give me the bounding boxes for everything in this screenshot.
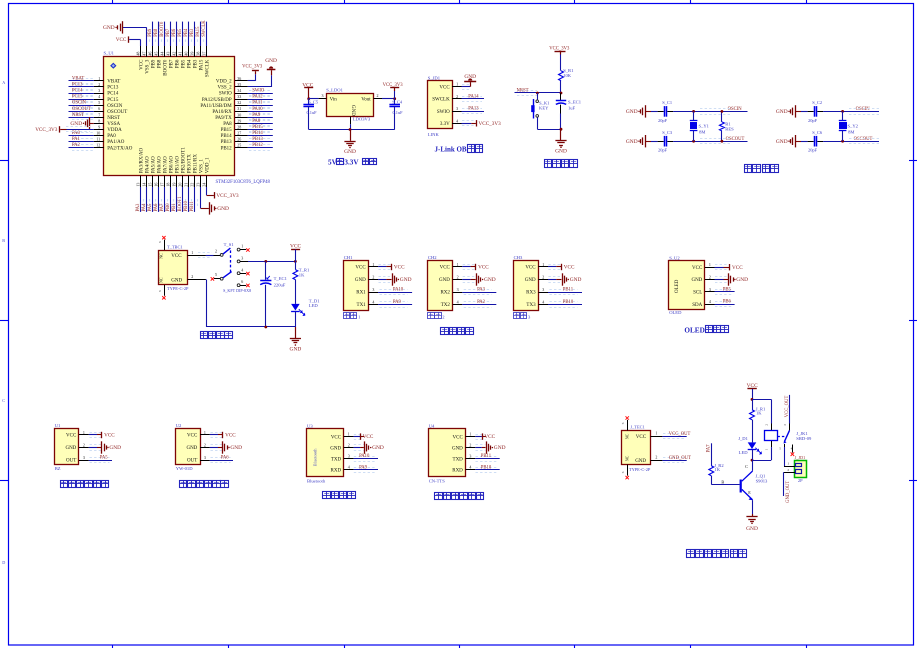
svg-text:4: 4: [98, 94, 100, 99]
wire net PA14: [462, 98, 485, 100]
svg-text:1: 1: [469, 432, 471, 437]
wire VCC to coil: [752, 399, 771, 401]
svg-text:PB11/RX: PB11/RX: [194, 154, 199, 174]
led T_D1 LED: [291, 304, 300, 311]
svg-text:2: 2: [765, 424, 769, 426]
wire net PA10 (U1 pin 31): [248, 111, 273, 113]
wire net PB5 (U1 pin 41): [182, 22, 184, 46]
junction (Vout / C4 / VCC_3V3): [393, 97, 396, 100]
svg-text:38: 38: [195, 52, 200, 56]
svg-text:10K: 10K: [563, 73, 572, 78]
svg-text:2: 2: [709, 275, 711, 280]
mcu U1 pin 46 PB9 (top): [152, 46, 154, 57]
caption module U4: [435, 493, 443, 500]
ground GND (relay): [746, 516, 757, 518]
svg-text:VCC: VCC: [355, 266, 366, 271]
wire S_C6 to net: [817, 141, 823, 143]
svg-text:25: 25: [237, 143, 241, 148]
svg-text:20pF: 20pF: [658, 148, 668, 153]
U3 pin 4 RXD: [344, 469, 354, 471]
svg-text:SCL: SCL: [693, 291, 702, 296]
mcu U1 pin 16 PA6/AO (bottom): [158, 176, 160, 188]
wire net PA11 (U1 pin 32): [248, 105, 273, 107]
svg-text:VSS_2: VSS_2: [218, 86, 233, 91]
T_TBC1 bottom NC pin: [164, 285, 166, 296]
resistor J_R2 1K: [709, 466, 714, 476]
svg-text:1: 1: [457, 262, 459, 267]
wire VSS_3 pin47 to GND: [123, 27, 147, 29]
svg-text:TX2: TX2: [441, 303, 451, 308]
mcu U1 pin 27 PB14 (right): [235, 135, 248, 137]
wire pin2 to GND: [462, 279, 470, 281]
CH2 pin 2 GND: [453, 279, 463, 281]
svg-text:32: 32: [237, 100, 241, 105]
svg-text:PA2: PA2: [72, 143, 81, 148]
svg-text:PA9: PA9: [359, 465, 368, 470]
wire net OSCIN (U1 pin 5): [69, 105, 94, 107]
ground GND (U1 VSS_1): [209, 202, 211, 214]
svg-text:3: 3: [456, 106, 458, 111]
svg-text:J_TEC1: J_TEC1: [630, 425, 644, 430]
wire net BOOT0 (U1 pin 44): [164, 22, 166, 46]
wire power ground rail: [206, 326, 295, 328]
svg-text:VCC: VCC: [66, 434, 77, 439]
svg-text:2: 2: [787, 468, 789, 472]
wire GND (U3): [354, 447, 361, 449]
svg-text:OLED: OLED: [684, 327, 704, 335]
wire VSSA pin8 to GND: [90, 123, 94, 125]
wire VDDA pin9 to VCC_3V3: [60, 129, 66, 131]
svg-text:GND: GND: [439, 278, 450, 283]
svg-text:PA9: PA9: [252, 113, 261, 118]
svg-text:3: 3: [542, 287, 544, 292]
junction (VCC / coil / R1): [751, 398, 754, 401]
svg-text:VCC: VCC: [331, 435, 342, 440]
ground GND (U1 VSSA): [89, 117, 91, 129]
svg-text:GND: GND: [626, 139, 638, 145]
svg-text:2: 2: [83, 443, 85, 448]
svg-text:GND: GND: [626, 109, 638, 115]
transistor J_Q1 S9013: [740, 480, 742, 493]
svg-text:7: 7: [98, 112, 100, 117]
connector CH2 body: [428, 261, 453, 311]
mcu U1 pin 30 PA9/TX (right): [235, 117, 248, 119]
wire switch pin3 to VCC node: [248, 261, 295, 263]
svg-text:VSS_3: VSS_3: [146, 59, 151, 74]
CH3 pin 4 TX3: [538, 304, 548, 306]
wire R2 to base: [711, 476, 713, 485]
svg-text:OSCIN: OSCIN: [856, 107, 871, 112]
svg-text:1: 1: [98, 76, 100, 81]
svg-text:GND_OUT: GND_OUT: [786, 481, 791, 503]
svg-text:1: 1: [191, 250, 193, 255]
J_TEC1 top NC pin: [627, 420, 629, 431]
capacitor S_C6 20pF: [814, 136, 816, 147]
wire net PA9 (U1 pin 30): [248, 117, 273, 119]
svg-text:PA5/AO: PA5/AO: [152, 156, 157, 173]
svg-text:NC: NC: [159, 253, 164, 259]
svg-text:PB9: PB9: [148, 28, 153, 37]
connector S_JD1 body: [428, 81, 453, 129]
svg-text:PB4: PB4: [188, 59, 193, 68]
svg-text:OSCOUT: OSCOUT: [107, 110, 127, 115]
svg-text:GND: GND: [400, 277, 412, 283]
wire GND to S_C2: [796, 111, 801, 113]
svg-text:2: 2: [204, 443, 206, 448]
svg-text:GND: GND: [494, 445, 506, 451]
power VCC (U1 pin48): [128, 36, 130, 42]
ground GND (U1 VSS_2): [271, 70, 273, 75]
mcu U1 pin 21 PB10/TX (bottom): [188, 176, 190, 188]
svg-text:PA5: PA5: [148, 203, 153, 212]
svg-text:VCC_3V3: VCC_3V3: [242, 64, 263, 69]
wire net PA10 (U3): [354, 458, 378, 460]
svg-text:PA11/USB/DM: PA11/USB/DM: [200, 104, 232, 109]
svg-text:VCC: VCC: [394, 265, 405, 271]
U3 pin 1 VCC: [344, 436, 354, 438]
border zone ticks right: [909, 160, 917, 162]
svg-text:S_C5: S_C5: [308, 99, 319, 104]
J_TEC1 pin 1 VCC: [651, 436, 663, 438]
wire net PA13: [462, 111, 485, 113]
S_JD1 pin 3 SWIO: [452, 111, 462, 113]
svg-text:GND: GND: [65, 446, 76, 451]
capacitor S_EC1 1uF: [560, 93, 562, 100]
mcu U1 pin 22 PB11/RX (bottom): [194, 176, 196, 188]
svg-text:6: 6: [621, 422, 625, 424]
connector T_TBC1 TYPE-C-2P body: [159, 251, 188, 285]
svg-text:29: 29: [237, 118, 241, 123]
svg-text:42: 42: [171, 52, 176, 56]
wire S_C3 to net: [667, 141, 673, 143]
wire JD1 pin2 to GND_OUT: [783, 472, 785, 496]
svg-text:PB4: PB4: [184, 28, 189, 37]
svg-text:LED: LED: [309, 303, 319, 308]
wire VSS_2 pin35 to GND: [248, 86, 271, 88]
caption serial port circuit: [441, 328, 449, 335]
caption module U1: [61, 481, 68, 488]
mcu U1 pin 33 PA12/USB/DP (right): [235, 99, 248, 101]
svg-text:VSS_1: VSS_1: [200, 159, 205, 174]
svg-text:PA12/USB/DP: PA12/USB/DP: [202, 98, 232, 103]
svg-text:PB13: PB13: [221, 140, 233, 145]
svg-text:VSSA: VSSA: [107, 122, 120, 127]
svg-text:14: 14: [141, 183, 146, 187]
svg-text:1: 1: [358, 315, 361, 320]
wire OLED VCC: [715, 267, 724, 269]
svg-text:PA1: PA1: [72, 137, 81, 142]
caption module U3: [323, 492, 331, 499]
mcu U1 pin 37 SWCLK (top): [206, 46, 208, 57]
svg-text:NC: NC: [625, 455, 630, 461]
wire net PA2 (CH2): [462, 304, 496, 306]
svg-text:PB7: PB7: [170, 59, 175, 68]
wire net PB6: [715, 304, 735, 306]
mcu U1 pin 25 PB12 (right): [235, 147, 248, 149]
svg-text:VCC: VCC: [636, 435, 647, 440]
U1 pin 1 VCC: [79, 434, 89, 436]
mcu U1 pin 2 PC13 (left): [94, 86, 104, 88]
svg-text:PB7: PB7: [166, 28, 171, 37]
svg-text:PA8: PA8: [252, 119, 261, 124]
caption module U2: [180, 481, 187, 488]
svg-text:OSCOUT: OSCOUT: [72, 107, 91, 112]
svg-text:GND: GND: [171, 278, 182, 283]
svg-text:RXD: RXD: [331, 468, 342, 473]
svg-text:PA10: PA10: [252, 107, 263, 112]
ground GND (U2): [222, 441, 224, 453]
wire net PB10 (U4): [475, 469, 499, 471]
svg-text:GND: GND: [186, 446, 197, 451]
svg-text:VDDA: VDDA: [107, 128, 122, 133]
svg-text:3: 3: [241, 255, 243, 260]
svg-text:GND: GND: [330, 446, 341, 451]
switch T_S1 pin 4: [237, 272, 240, 275]
junction (crystal bottom): [692, 140, 695, 143]
svg-text:VCC: VCC: [140, 59, 145, 70]
svg-text:C: C: [745, 464, 748, 469]
wire net PB7 (U1 pin 43): [170, 22, 172, 46]
ground GND (U1 VSS_3): [122, 21, 124, 33]
mcu U1 pin 8 VSSA (left): [94, 123, 104, 125]
wire GND (U4): [475, 447, 482, 449]
S_JD1 pin 2 SWCLK: [452, 98, 462, 100]
wire net PC14 (U1 pin 3): [69, 93, 94, 95]
svg-text:PC13: PC13: [107, 86, 119, 91]
svg-text:B: B: [721, 479, 724, 484]
U3 pin 2 GND: [344, 447, 354, 449]
svg-text:T_EC1: T_EC1: [274, 276, 288, 281]
svg-text:GND: GND: [344, 149, 356, 155]
mcu U1 pin 20 PB2/BOOT1 (bottom): [182, 176, 184, 188]
svg-text:GND: GND: [635, 459, 646, 464]
svg-text:4: 4: [542, 300, 544, 305]
svg-text:3: 3: [528, 315, 531, 320]
connector J_JD1 pin sockets: [796, 464, 802, 467]
switch T_S1 lever B: [223, 272, 232, 278]
mcu U1 pin 39 PB3 (top): [194, 46, 196, 57]
wire S_C2 to net: [817, 111, 823, 113]
svg-text:2: 2: [542, 275, 544, 280]
svg-text:1uF: 1uF: [568, 105, 576, 110]
svg-text:0.1uF: 0.1uF: [393, 110, 404, 115]
svg-text:OSCIN: OSCIN: [72, 101, 87, 106]
svg-text:3: 3: [348, 454, 350, 459]
svg-text:U4: U4: [429, 424, 435, 429]
svg-text:VDD_2: VDD_2: [216, 80, 232, 85]
wire net PA15 (U1 pin 38): [200, 22, 202, 46]
svg-text:Bluetooth: Bluetooth: [307, 478, 326, 483]
relay J_JK1 coil pin 2: [771, 424, 773, 431]
junction (crystal top): [841, 110, 844, 113]
power VCC_3V3 (U1 VDD_2): [255, 71, 257, 74]
mcu U1 pin 47 VSS_3 (top): [146, 46, 148, 57]
svg-text:S_C1: S_C1: [662, 100, 672, 105]
wire net VCC_OUT: [662, 436, 686, 438]
S_U2 pin 4 SDA: [705, 304, 715, 306]
wire R1 to node: [560, 81, 562, 93]
svg-text:PB5: PB5: [723, 287, 732, 292]
svg-text:1K: 1K: [299, 272, 305, 277]
svg-text:3.3V: 3.3V: [440, 122, 450, 127]
mcu U1 pin 44 BOOT0 (top): [164, 46, 166, 57]
svg-text:PA7: PA7: [706, 444, 711, 453]
mcu U1 pin 6 OSCOUT (left): [94, 111, 104, 113]
svg-text:J-Link OB: J-Link OB: [435, 145, 467, 153]
svg-text:20pF: 20pF: [808, 118, 818, 123]
mcu U1 body: [104, 57, 235, 176]
svg-text:1: 1: [83, 430, 85, 435]
svg-text:PA5: PA5: [100, 456, 109, 461]
wire net PB1 (U1 pin 19): [176, 187, 178, 212]
svg-text:8M: 8M: [848, 130, 854, 135]
svg-text:GND: GND: [525, 278, 536, 283]
CH1 pin 1 VCC: [369, 266, 379, 268]
svg-text:S_C3: S_C3: [662, 130, 673, 135]
svg-text:PA9: PA9: [393, 300, 402, 305]
svg-text:2: 2: [372, 275, 374, 280]
svg-text:GND: GND: [230, 445, 242, 451]
S_JD1 pin 4 3.3V: [452, 123, 462, 125]
mcu U1 pin 34 SWIO (right): [235, 93, 248, 95]
wire net PB11 (U1 pin 22): [194, 187, 196, 212]
capacitor S_C4 0.1uF: [394, 99, 396, 105]
svg-text:1: 1: [348, 432, 350, 437]
mcu U1 pin 17 PA7/AO (bottom): [164, 176, 166, 188]
svg-text:VCC: VCC: [478, 265, 489, 271]
svg-text:0.1uF: 0.1uF: [307, 110, 318, 115]
svg-text:E: E: [748, 490, 751, 495]
S_U2 pin 3 SCL: [705, 291, 715, 293]
svg-text:30: 30: [237, 112, 241, 117]
svg-text:PA2: PA2: [477, 300, 486, 305]
svg-text:A: A: [2, 80, 5, 85]
svg-text:6: 6: [158, 241, 162, 243]
CH1 pin 4 TX1: [369, 304, 379, 306]
svg-text:11: 11: [96, 137, 100, 142]
svg-text:PA7: PA7: [160, 203, 165, 212]
svg-text:NRST: NRST: [517, 88, 529, 93]
svg-text:S_JD1: S_JD1: [428, 76, 441, 81]
svg-text:4: 4: [372, 300, 374, 305]
svg-text:4: 4: [709, 299, 711, 304]
svg-text:39: 39: [189, 52, 194, 56]
svg-text:2: 2: [191, 274, 193, 279]
svg-text:20pF: 20pF: [658, 118, 668, 123]
svg-text:PA0: PA0: [107, 134, 116, 139]
svg-text:RXD: RXD: [452, 468, 463, 473]
module U3 body: [307, 429, 344, 477]
svg-text:PB6: PB6: [176, 59, 181, 68]
mcu U1 pin 7 NRST (left): [94, 117, 104, 119]
svg-text:PB5: PB5: [182, 59, 187, 68]
svg-text:220uF: 220uF: [274, 283, 286, 288]
svg-text:PA2/TX/AO: PA2/TX/AO: [107, 146, 132, 151]
svg-text:3: 3: [322, 93, 324, 98]
svg-text:U2: U2: [176, 423, 182, 428]
wire GND to S_C1: [646, 111, 651, 113]
svg-text:3: 3: [783, 424, 787, 426]
svg-text:VCC: VCC: [290, 244, 301, 250]
svg-text:PB10: PB10: [563, 300, 574, 305]
svg-text:VCC: VCC: [525, 266, 536, 271]
label serial port 1: [344, 313, 350, 319]
J_JD1 pin 2: [784, 472, 795, 474]
switch T_S1 pin 5 contact: [211, 277, 214, 280]
svg-text:22: 22: [189, 183, 194, 187]
svg-text:PB3: PB3: [194, 59, 199, 68]
ground GND (LDO): [350, 130, 352, 141]
svg-text:45: 45: [153, 52, 158, 56]
wire LED to rail: [295, 311, 297, 327]
ground GND (S_C2): [795, 105, 797, 117]
ground GND (U3): [364, 441, 366, 453]
svg-text:LED: LED: [739, 450, 749, 455]
wire net PA10 (CH1): [378, 292, 412, 294]
wire net PA0 (U1 pin 10): [69, 135, 94, 137]
svg-text:PA7/AO: PA7/AO: [164, 156, 169, 173]
capacitor T_EC1 220uF: [265, 261, 267, 279]
CH3 pin 1 VCC: [538, 266, 548, 268]
svg-text:GND: GND: [776, 139, 788, 145]
svg-text:6: 6: [98, 106, 100, 111]
svg-text:VCC: VCC: [453, 435, 464, 440]
ground GND (U1): [101, 441, 103, 453]
junction (NRST node): [560, 92, 563, 95]
connector CH1 body: [344, 261, 369, 311]
wire net PA7 (U1 pin 17): [164, 187, 166, 212]
wire PA7 to R2: [711, 443, 713, 466]
svg-text:44: 44: [159, 52, 164, 56]
svg-text:PA13: PA13: [468, 107, 479, 112]
svg-text:24: 24: [201, 183, 206, 187]
wire net PB14 (U1 pin 27): [248, 135, 273, 137]
svg-text:27: 27: [237, 130, 241, 135]
svg-text:J_JD1: J_JD1: [795, 455, 805, 460]
switch T_S1 pin 2 contact: [214, 255, 221, 257]
wire net PB13 (U1 pin 26): [248, 141, 273, 143]
wire net NRST (U1 pin 7): [69, 117, 94, 119]
wire net PA3 (CH2): [462, 292, 496, 294]
wire pin1 to VCC: [462, 266, 470, 268]
svg-text:VCC: VCC: [171, 254, 182, 259]
mcu U1 pin 14 PA4/AO (bottom): [146, 176, 148, 188]
wire net PB3 (U1 pin 39): [194, 22, 196, 46]
junction (key branch): [536, 92, 539, 95]
CH1 pin 2 GND: [369, 279, 379, 281]
wire GND to S_C3: [646, 141, 651, 143]
wire GND (U2): [210, 447, 218, 449]
wire net PA4 (U1 pin 14): [146, 187, 148, 212]
switch T_S1 pin 3: [237, 260, 240, 263]
mcu U1 pin 45 PB8 (top): [158, 46, 160, 57]
J_JD1 pin 1: [784, 466, 795, 468]
svg-text:NC: NC: [159, 277, 164, 283]
svg-text:2: 2: [98, 82, 100, 87]
svg-text:4: 4: [457, 300, 459, 305]
border zone ticks left: [0, 160, 9, 162]
svg-text:PA10/RX: PA10/RX: [212, 110, 232, 115]
svg-text:GND: GND: [265, 58, 277, 64]
svg-text:13: 13: [135, 183, 140, 187]
wire net PA5 (U1): [89, 460, 112, 462]
svg-text:PC14: PC14: [72, 89, 83, 94]
svg-text:2: 2: [377, 93, 379, 98]
wire net VBAT (U1 pin 1): [69, 80, 94, 82]
caption relay control circuit: [687, 550, 695, 558]
svg-text:6: 6: [158, 290, 162, 292]
svg-text:RX3: RX3: [526, 291, 536, 296]
